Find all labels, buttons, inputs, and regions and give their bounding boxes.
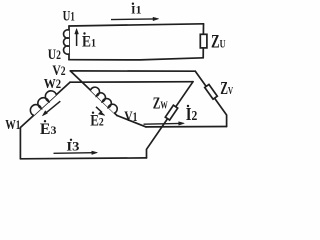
label I3 dot [70,139,72,141]
svg-text:ZU: ZU [211,32,226,53]
arrow I3 (right) [54,151,98,155]
wire top rail U1 to ZU [69,24,204,26]
winding E1 (U1-U2) vertical line [68,26,70,60]
wire ZV return horizontal [146,126,227,128]
wire bottom rail [20,157,146,160]
svg-text:U2: U2 [48,47,61,63]
wire ZU drop bottom [202,48,204,58]
svg-text:E3: E3 [40,121,57,138]
wire ZV diagonal [195,71,226,126]
winding E2 (V2-V1) diagonal [70,71,117,116]
wire V1 to return [117,116,146,127]
arrow E1 (up) [75,29,79,47]
svg-text:I2: I2 [186,104,198,124]
arrow I1 (right) [111,17,159,21]
wire V2 horizontal to ZV [70,70,195,72]
svg-text:U1: U1 [63,8,75,24]
wire ZW diagonal [147,82,194,158]
winding E3 (W2-W1) diagonal [20,82,70,127]
wire W2 horizontal to ZW [70,81,193,84]
svg-text:ZW: ZW [153,94,168,113]
arrow I2 (right) [144,122,185,126]
resistor ZU [200,34,207,48]
label E1 dot [83,32,85,34]
svg-text:ZV: ZV [220,78,233,98]
resistor ZV [205,84,218,99]
label E3 dot [44,120,46,122]
svg-text:V1: V1 [124,109,137,125]
svg-text:E1: E1 [82,34,96,51]
svg-text:W1: W1 [5,118,20,133]
label E2 dot [92,112,94,114]
coil bumps E3 [30,91,56,116]
svg-text:I1: I1 [131,2,142,16]
wire W1 vertical [19,128,21,159]
label I1 dot [132,3,134,5]
coil bumps E2 [91,87,118,113]
coil bumps E1 [64,30,69,54]
wire ZU drop top [202,24,204,35]
svg-text:E2: E2 [90,113,104,130]
wire U2 rail [69,58,203,60]
arrow E2 (down-right along coil) [96,107,105,116]
resistor ZW [165,105,177,120]
label I2 dot [187,105,189,107]
arrow E3 (down-left along coil) [42,101,60,116]
svg-text:W2: W2 [44,77,61,92]
svg-text:I3: I3 [66,139,80,154]
